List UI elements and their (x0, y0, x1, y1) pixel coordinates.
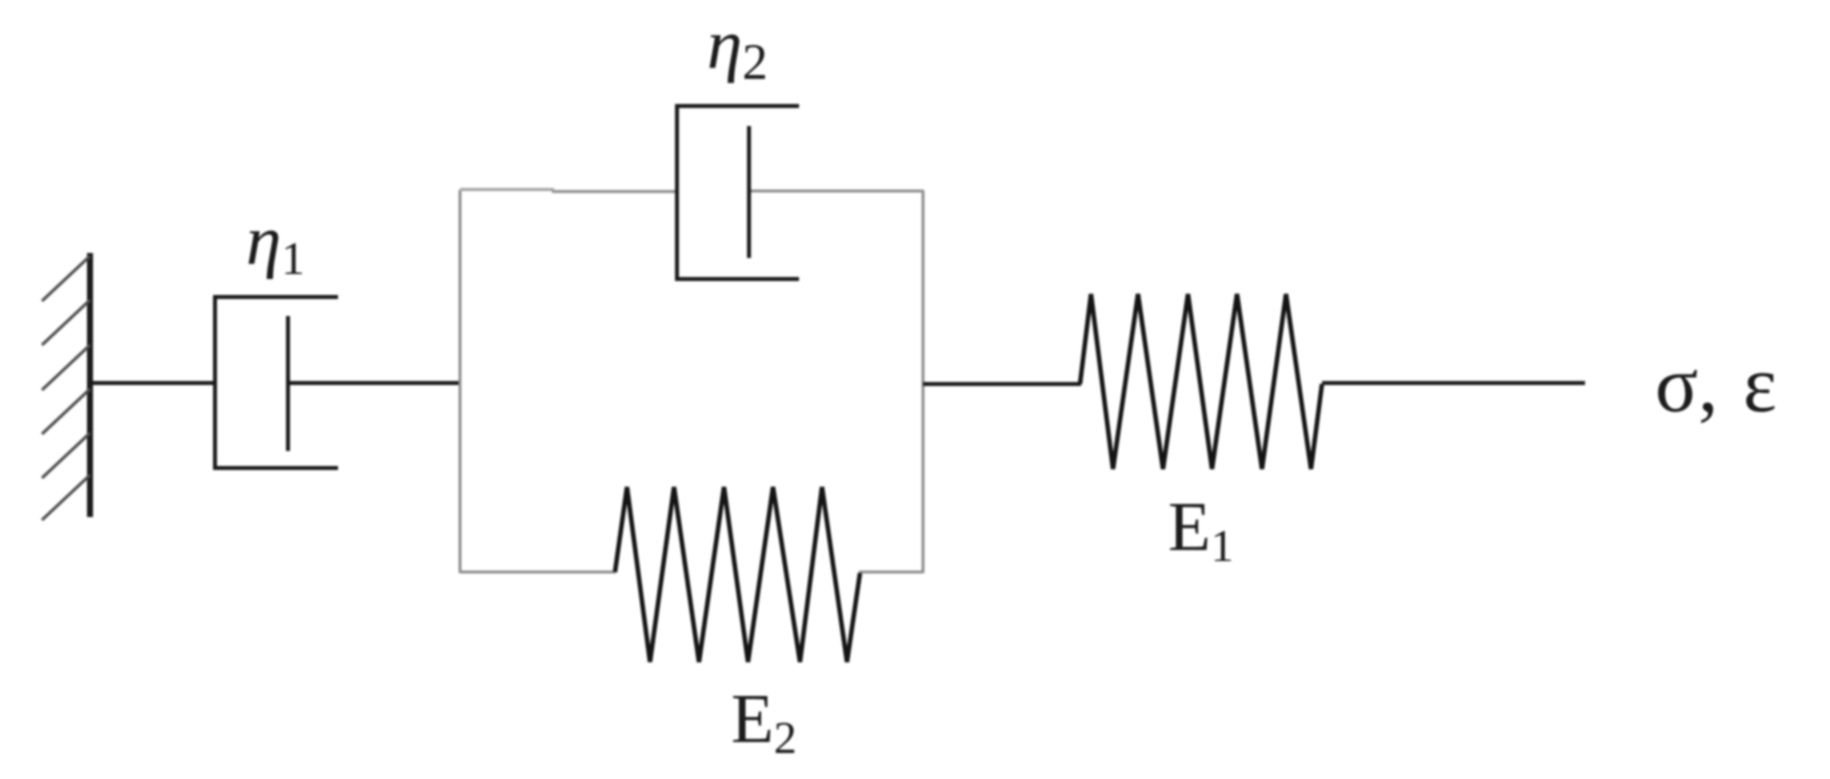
dashpot eta2 cylinder (677, 106, 799, 279)
dashpot eta2 piston (747, 126, 751, 258)
label eta2 (707, 5, 768, 86)
parallel box outline (460, 190, 924, 574)
wall (87, 253, 93, 517)
spring E2 (615, 487, 860, 662)
dashpot eta1 cylinder (215, 297, 338, 468)
wire dashpot eta1 to box (288, 381, 461, 385)
label E2 (731, 680, 797, 760)
wire wall to dashpot eta1 (88, 381, 217, 385)
wall hatching (42, 256, 90, 520)
spring E1 (1080, 294, 1322, 469)
wire spring E1 to load (1322, 381, 1585, 385)
dashpot eta1 piston (286, 316, 290, 451)
label sigma epsilon (1655, 340, 1777, 431)
label eta1 (246, 201, 305, 282)
label E1 (1168, 488, 1234, 568)
wire box to spring E1 (923, 382, 1081, 386)
